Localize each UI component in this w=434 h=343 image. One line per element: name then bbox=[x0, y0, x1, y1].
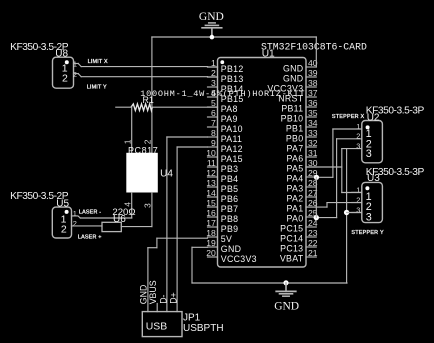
svg-text:7: 7 bbox=[211, 118, 216, 128]
svg-text:2: 2 bbox=[61, 223, 67, 235]
svg-text:6: 6 bbox=[211, 108, 216, 118]
svg-text:PC13: PC13 bbox=[280, 244, 303, 254]
svg-text:PB3: PB3 bbox=[221, 164, 239, 174]
svg-text:PA7: PA7 bbox=[287, 144, 304, 154]
svg-text:1: 1 bbox=[356, 122, 360, 131]
svg-text:LASER -: LASER - bbox=[79, 209, 101, 215]
svg-text:23: 23 bbox=[308, 228, 318, 238]
svg-text:PA6: PA6 bbox=[287, 154, 304, 164]
svg-text:PA4: PA4 bbox=[287, 174, 304, 184]
svg-text:9: 9 bbox=[211, 138, 216, 148]
svg-text:10: 10 bbox=[206, 148, 216, 158]
svg-text:USBPTH: USBPTH bbox=[183, 323, 224, 334]
svg-text:100OHM-1_4W-5%(PTH)HORIZ-KIT: 100OHM-1_4W-5%(PTH)HORIZ-KIT bbox=[140, 89, 305, 99]
svg-text:U5: U5 bbox=[56, 198, 69, 209]
svg-text:GND: GND bbox=[221, 244, 241, 254]
svg-text:PB1: PB1 bbox=[286, 124, 304, 134]
svg-text:2: 2 bbox=[73, 70, 77, 79]
svg-text:33: 33 bbox=[308, 128, 318, 138]
svg-text:U1: U1 bbox=[262, 49, 275, 60]
svg-text:34: 34 bbox=[308, 118, 318, 128]
svg-text:PB13: PB13 bbox=[221, 74, 244, 84]
svg-text:1: 1 bbox=[73, 60, 77, 69]
svg-text:PB5: PB5 bbox=[221, 184, 239, 194]
svg-text:21: 21 bbox=[308, 248, 318, 258]
svg-text:37: 37 bbox=[308, 88, 318, 98]
svg-text:19: 19 bbox=[206, 238, 216, 248]
svg-text:PB9: PB9 bbox=[221, 224, 239, 234]
svg-text:39: 39 bbox=[308, 68, 318, 78]
svg-text:VBUS: VBUS bbox=[148, 280, 158, 304]
svg-text:D+: D+ bbox=[169, 292, 179, 304]
svg-text:JP1: JP1 bbox=[183, 312, 201, 323]
svg-text:32: 32 bbox=[308, 138, 318, 148]
svg-text:3: 3 bbox=[356, 141, 360, 150]
svg-text:GND: GND bbox=[283, 74, 303, 84]
svg-text:STEPPER X: STEPPER X bbox=[332, 114, 365, 120]
svg-text:PA15: PA15 bbox=[221, 154, 243, 164]
svg-text:PA11: PA11 bbox=[221, 134, 242, 144]
svg-text:8: 8 bbox=[211, 128, 216, 138]
svg-text:2: 2 bbox=[356, 132, 360, 141]
svg-text:GND: GND bbox=[274, 301, 299, 313]
svg-text:2: 2 bbox=[143, 139, 153, 144]
svg-text:USB: USB bbox=[146, 321, 167, 332]
svg-text:36: 36 bbox=[308, 98, 318, 108]
svg-text:20: 20 bbox=[206, 248, 216, 258]
svg-text:1: 1 bbox=[73, 209, 77, 218]
svg-text:22: 22 bbox=[308, 238, 318, 248]
svg-text:U6: U6 bbox=[113, 214, 126, 225]
svg-text:16: 16 bbox=[206, 208, 216, 218]
svg-text:PA1: PA1 bbox=[287, 204, 304, 214]
svg-text:18: 18 bbox=[206, 228, 216, 238]
svg-text:PA12: PA12 bbox=[221, 144, 243, 154]
svg-text:PA8: PA8 bbox=[221, 104, 238, 114]
svg-text:3: 3 bbox=[366, 211, 372, 223]
svg-text:LIMIT Y: LIMIT Y bbox=[87, 84, 107, 90]
svg-text:LIMIT X: LIMIT X bbox=[88, 59, 108, 65]
svg-text:38: 38 bbox=[308, 78, 318, 88]
svg-text:GND: GND bbox=[199, 11, 224, 23]
svg-text:D-: D- bbox=[158, 294, 168, 303]
svg-text:PA10: PA10 bbox=[221, 124, 243, 134]
svg-text:14: 14 bbox=[206, 188, 216, 198]
svg-text:5V: 5V bbox=[221, 234, 232, 244]
svg-text:15: 15 bbox=[206, 198, 216, 208]
svg-text:U8: U8 bbox=[55, 48, 68, 59]
svg-text:PB4: PB4 bbox=[221, 174, 239, 184]
svg-text:GND: GND bbox=[138, 285, 148, 305]
svg-text:U3: U3 bbox=[367, 173, 380, 184]
svg-text:PC14: PC14 bbox=[280, 234, 303, 244]
svg-text:GND: GND bbox=[283, 64, 303, 74]
svg-text:PA2: PA2 bbox=[287, 194, 304, 204]
svg-text:11: 11 bbox=[207, 158, 216, 168]
svg-text:VCC3V3: VCC3V3 bbox=[221, 254, 257, 264]
svg-text:3: 3 bbox=[143, 203, 153, 208]
svg-text:PB11: PB11 bbox=[281, 104, 303, 114]
svg-text:U2: U2 bbox=[367, 113, 380, 124]
svg-text:PA3: PA3 bbox=[287, 184, 304, 194]
svg-text:PA9: PA9 bbox=[221, 114, 238, 124]
svg-text:2: 2 bbox=[62, 73, 68, 85]
svg-text:STM32F103C8T6-CARD: STM32F103C8T6-CARD bbox=[261, 42, 367, 53]
svg-text:PB8: PB8 bbox=[221, 214, 239, 224]
svg-text:13: 13 bbox=[206, 178, 216, 188]
svg-text:PA5: PA5 bbox=[287, 164, 304, 174]
svg-text:STEPPER Y: STEPPER Y bbox=[351, 230, 384, 236]
svg-text:35: 35 bbox=[308, 108, 318, 118]
svg-text:2: 2 bbox=[73, 219, 77, 228]
svg-text:3: 3 bbox=[366, 148, 372, 160]
svg-text:LASER +: LASER + bbox=[78, 234, 102, 240]
svg-text:3: 3 bbox=[211, 78, 216, 88]
svg-text:R1: R1 bbox=[143, 95, 154, 105]
svg-text:PB7: PB7 bbox=[221, 204, 239, 214]
svg-text:12: 12 bbox=[206, 168, 216, 178]
svg-text:PB12: PB12 bbox=[221, 64, 244, 74]
svg-text:31: 31 bbox=[308, 148, 318, 158]
svg-text:PB6: PB6 bbox=[221, 194, 239, 204]
svg-text:PB0: PB0 bbox=[286, 134, 304, 144]
svg-text:VBAT: VBAT bbox=[280, 254, 304, 264]
svg-text:17: 17 bbox=[206, 218, 216, 228]
svg-text:PB10: PB10 bbox=[281, 114, 304, 124]
svg-text:PC15: PC15 bbox=[280, 224, 303, 234]
svg-text:1: 1 bbox=[123, 139, 133, 144]
svg-text:PA0: PA0 bbox=[287, 214, 304, 224]
